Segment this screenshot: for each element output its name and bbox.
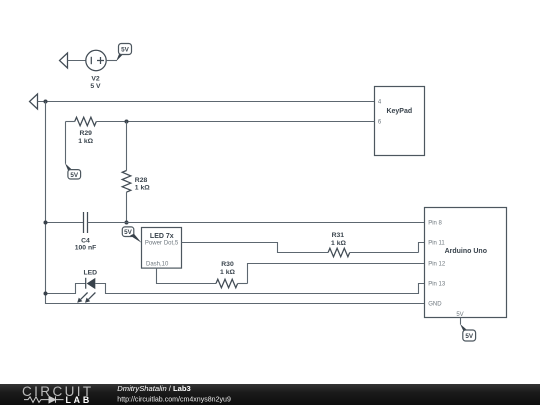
svg-text:R28: R28 <box>135 177 148 184</box>
svg-text:1 kΩ: 1 kΩ <box>220 269 235 276</box>
svg-text:Dot,5: Dot,5 <box>164 241 179 247</box>
resistor R29 <box>66 117 127 145</box>
svg-text:LAB: LAB <box>66 395 92 405</box>
wire (LED row left) <box>46 284 86 294</box>
ground flag (net rail) <box>30 94 38 109</box>
svg-text:Power: Power <box>145 241 162 247</box>
node junction <box>44 100 48 104</box>
wire (R31 to Arduino pin 11) <box>419 243 425 253</box>
wire (arduino 5V stub) <box>460 318 462 325</box>
node junction <box>125 221 129 225</box>
wire (R29 left to 5V flag) <box>65 122 67 164</box>
node junction <box>44 292 48 296</box>
svg-text:Dash,10: Dash,10 <box>146 262 169 268</box>
svg-text:Pin 12: Pin 12 <box>428 262 446 268</box>
voltage source V2 <box>86 50 106 90</box>
capacitor C4 <box>46 212 425 251</box>
arduino module <box>425 208 507 319</box>
wire <box>106 60 117 62</box>
wire (R30 to Arduino pin 12) <box>248 264 425 284</box>
svg-text:DmitryShatalin / Lab3: DmitryShatalin / Lab3 <box>117 384 190 393</box>
resistor R30 <box>216 261 248 288</box>
svg-text:LED: LED <box>83 269 97 276</box>
LED <box>77 269 97 302</box>
svg-text:5V: 5V <box>121 47 130 54</box>
wire (LED row right) <box>95 284 424 294</box>
svg-text:5V: 5V <box>456 312 463 318</box>
svg-text:5 V: 5 V <box>90 83 101 90</box>
node junction <box>125 120 129 124</box>
wire (gnd rail to keypad pin 4) <box>38 101 375 103</box>
wire (Dot,5 to R31) <box>182 243 329 253</box>
net flag 5V (R29) <box>65 163 81 179</box>
svg-text:LED 7x: LED 7x <box>150 233 174 240</box>
svg-text:Arduino Uno: Arduino Uno <box>445 248 487 255</box>
ground flag (left of V2) <box>60 53 68 68</box>
svg-text:1 kΩ: 1 kΩ <box>331 240 346 247</box>
resistor R31 <box>328 232 418 257</box>
net flag 5V (Arduino) <box>460 324 475 341</box>
net flag 5V (LED module power) <box>122 227 141 243</box>
node junction <box>44 221 48 225</box>
svg-text:Pin 8: Pin 8 <box>428 221 442 227</box>
svg-text:5V: 5V <box>70 172 79 179</box>
svg-text:5V: 5V <box>124 229 133 236</box>
svg-text:GND: GND <box>428 302 442 308</box>
svg-text:R29: R29 <box>79 130 92 137</box>
wire (pin6 row) <box>127 121 375 123</box>
net flag 5V (V2 plus terminal) <box>116 44 131 62</box>
svg-text:100 nF: 100 nF <box>75 244 97 251</box>
svg-text:R31: R31 <box>332 232 345 239</box>
svg-text:1 kΩ: 1 kΩ <box>135 185 150 192</box>
LED display module LED 7x <box>142 228 182 269</box>
svg-text:R30: R30 <box>221 261 234 268</box>
wire (Dash,10 down and right) <box>157 268 217 284</box>
svg-text:1 kΩ: 1 kΩ <box>78 138 93 145</box>
svg-text:KeyPad: KeyPad <box>386 108 412 115</box>
svg-text:http://circuitlab.com/cm4xnys8: http://circuitlab.com/cm4xnys8n2yu9 <box>117 397 231 404</box>
wire <box>68 60 87 62</box>
footer text <box>117 384 231 404</box>
svg-text:Pin 13: Pin 13 <box>428 282 446 288</box>
svg-text:V2: V2 <box>91 75 100 82</box>
circuitlab logo <box>22 384 94 405</box>
resistor R28 <box>122 122 150 223</box>
wire (left vertical rail) <box>46 102 425 304</box>
svg-text:Pin 11: Pin 11 <box>428 241 445 247</box>
keypad module <box>375 87 425 156</box>
svg-text:5V: 5V <box>465 333 474 340</box>
